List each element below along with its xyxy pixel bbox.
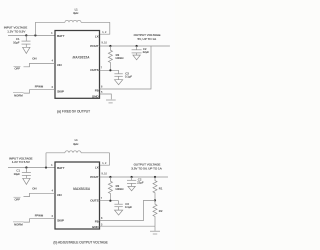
wire input rail [8,34,55,36]
svg-text:POUT: POUT [90,44,99,48]
capacitor C1 [14,168,31,179]
svg-text:LX: LX [95,166,99,170]
svg-text:MAX8815A: MAX8815A [73,187,91,191]
node C1 junction [25,34,27,36]
svg-text:R1: R1 [159,187,163,191]
capacitor C3 [114,201,132,210]
resistor R2 [153,200,163,226]
svg-text:1.2V TO 5.5V: 1.2V TO 5.5V [7,30,25,34]
node C1 junction [25,166,27,168]
ground C1 [23,178,30,184]
wire LX drop [100,153,110,165]
ground earth bars [150,226,160,234]
svg-text:(a) FIXED 5V OUTPUT: (a) FIXED 5V OUTPUT [57,109,90,113]
output voltage label [131,162,161,170]
svg-text:ON: ON [32,56,36,60]
node inductor junction [45,166,47,168]
node R3 top [109,45,111,47]
wire GND rail [100,225,156,227]
svg-text:100kΩ: 100kΩ [115,187,123,191]
svg-text:1.2V TO 5.5V: 1.2V TO 5.5V [12,160,30,164]
capacitor C1 [13,35,30,47]
op-amp U1 MAX8815A [55,31,100,99]
ground C3 [115,210,123,215]
SKIP step symbol [13,213,55,226]
resistor R1 [153,177,163,200]
svg-text:BATT: BATT [57,34,65,38]
capacitor C3 [114,70,132,79]
ON step symbol [14,56,56,70]
output voltage label [134,33,161,41]
svg-text:SKIP: SKIP [57,90,64,94]
svg-text:GND: GND [92,94,100,98]
wire FB to output [100,46,152,89]
input voltage label [4,25,28,33]
resistor R3 [108,177,123,201]
svg-text:ON: ON [57,63,62,67]
svg-text:22µF: 22µF [143,50,150,54]
svg-text:LX: LX [95,35,99,39]
svg-text:POUT: POUT [90,175,99,179]
wire GND stub [100,94,112,99]
svg-text:NORM: NORM [14,223,23,227]
node R3 top [109,176,111,178]
input voltage label [9,156,33,164]
node OUTS R3 [109,200,111,202]
svg-text:MAX8815A: MAX8815A [72,55,90,59]
svg-text:0.1µF: 0.1µF [125,205,132,209]
svg-text:SKIP: SKIP [57,219,64,223]
svg-text:BATT: BATT [57,166,65,170]
svg-text:ON: ON [57,193,62,197]
ground C2 [128,186,135,190]
svg-text:0.1µF: 0.1µF [125,75,132,79]
svg-text:FPWM: FPWM [35,84,44,88]
svg-text:22µF: 22µF [137,180,144,184]
svg-text:FB: FB [95,219,99,223]
svg-text:3.3V TO 5V, UP TO 1A: 3.3V TO 5V, UP TO 1A [131,167,161,171]
svg-text:9, 10: 9, 10 [102,173,108,176]
ground C1 [23,47,30,53]
svg-text:5V, UP TO 1A: 5V, UP TO 1A [138,37,157,41]
ground C3 [115,80,123,85]
svg-text:OFF: OFF [15,67,21,71]
ON step symbol [14,187,56,202]
wire OUTS [100,200,119,202]
wire OUTS [100,69,119,71]
svg-text:3µH: 3µH [73,11,78,15]
capacitor C2 [132,46,150,55]
wire LX drop [100,22,110,34]
svg-text:INPUT VOLTAGE: INPUT VOLTAGE [4,25,28,29]
node R1 top [154,176,156,178]
svg-text:NORM: NORM [14,94,23,98]
wire input rail [8,167,55,169]
resistor R3 [108,46,123,70]
svg-text:OUTS: OUTS [90,199,98,203]
inductor L1 [35,8,109,23]
svg-text:ON: ON [32,187,36,191]
svg-text:FPWM: FPWM [35,213,44,217]
inductor L1 [46,138,110,153]
node OUTS R3 [109,69,111,71]
SKIP step symbol [13,84,55,97]
wire POUT output rail [100,176,169,178]
svg-text:9, 10: 9, 10 [102,42,108,45]
svg-text:GND: GND [92,225,100,229]
svg-text:OUTS: OUTS [90,68,98,72]
svg-text:R2: R2 [159,209,163,213]
svg-text:10µF: 10µF [13,40,20,44]
svg-text:OFF: OFF [15,197,21,201]
ground GND pin earth bars [106,100,116,103]
node C2 [131,176,133,178]
svg-text:100kΩ: 100kΩ [115,56,123,60]
svg-text:3µH: 3µH [73,142,78,146]
svg-text:10µF: 10µF [14,172,21,176]
node divider mid [154,199,156,201]
svg-text:1, 2: 1, 2 [102,31,107,34]
svg-text:1, 2: 1, 2 [102,162,107,165]
wire riser to inductor [45,153,47,168]
svg-text:FB: FB [95,88,99,92]
node C2 [136,45,138,47]
node inductor junction [34,34,36,36]
wire riser to inductor [34,22,36,35]
capacitor C2 [127,177,144,186]
wire FB to divider [100,200,156,220]
ground C2 [133,55,140,60]
svg-text:(b) ADJUSTABLE OUTPUT VOLTAGE: (b) ADJUSTABLE OUTPUT VOLTAGE [53,241,107,245]
op-amp U1 MAX8815A [55,162,100,229]
wire POUT output rail [100,45,170,47]
